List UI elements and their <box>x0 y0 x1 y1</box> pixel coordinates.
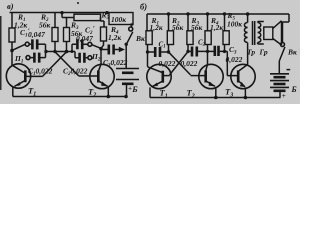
wire top rail left <box>10 12 110 14</box>
capacitor C1 right <box>148 51 155 53</box>
transistor T1 right <box>147 64 171 88</box>
wire bottom rail left <box>13 96 127 98</box>
svg-text:1,2к: 1,2к <box>150 23 163 32</box>
transformer Тр secondary <box>258 23 261 43</box>
svg-text:Тр: Тр <box>247 48 255 57</box>
svg-text:Гр: Гр <box>259 48 268 57</box>
junction dot R3 node <box>65 50 69 54</box>
capacitor C2' <box>83 43 87 45</box>
battery Б right <box>270 73 289 75</box>
wire R1 top stub <box>11 13 13 29</box>
minus tick <box>287 69 291 71</box>
switch Вк contact <box>129 27 133 31</box>
wire top rail right <box>147 13 289 15</box>
switch Вк right contact <box>281 43 285 47</box>
switch П2 lower contact <box>88 56 92 60</box>
scan edge artifact <box>0 16 2 90</box>
battery Б left <box>116 68 139 70</box>
svg-text:Вк: Вк <box>135 34 145 43</box>
transistor T2 right <box>199 64 223 88</box>
wire blade to battery <box>278 61 280 74</box>
wire R1 bottom stub <box>11 42 13 51</box>
svg-text:С3: С3 <box>229 45 237 56</box>
switch Вк blade <box>126 32 133 45</box>
node T1 collector dot <box>10 49 14 53</box>
resistor R2 right <box>168 14 170 31</box>
wire R3 top stub <box>66 18 68 28</box>
node T2 collector dot <box>99 47 103 51</box>
node dot rail at x107 <box>105 11 108 14</box>
wire C1' to node P <box>45 44 47 51</box>
svg-text:Вк: Вк <box>287 48 297 57</box>
wire R4 bottom stub <box>101 41 104 64</box>
wire T3 base drop <box>227 51 238 75</box>
wire R2 top stub <box>54 13 56 28</box>
svg-text:П1: П1 <box>14 54 23 65</box>
wire feedback y17 <box>62 13 74 18</box>
svg-text:0,022: 0,022 <box>181 59 198 68</box>
junction dot R2 node <box>53 50 56 53</box>
wire T2 base lead <box>79 75 97 77</box>
capacitor C3 right <box>208 50 214 52</box>
wire T1 base lead right <box>164 75 170 77</box>
switch П1 lower contact <box>26 56 30 60</box>
wire T2 base lead right <box>191 75 205 77</box>
stray dot top <box>77 2 79 4</box>
svg-text:0,022: 0,022 <box>226 55 243 64</box>
switch Вк right blade <box>279 47 285 61</box>
wire R5 to R4 <box>101 18 105 28</box>
wire X right D1 <box>169 52 191 75</box>
resistor R3 <box>64 28 70 42</box>
transistor T2 <box>90 64 114 88</box>
wire T1 base lead <box>26 75 42 77</box>
wire box to switch <box>131 25 133 27</box>
junction dot C2' node <box>71 50 74 53</box>
wire node bus y51.5 <box>46 51 76 53</box>
svg-text:56к: 56к <box>39 21 51 30</box>
resistor R1 right <box>146 14 148 31</box>
capacitor C2 right <box>188 50 191 52</box>
resistor R1 <box>9 28 15 42</box>
svg-text:0,047: 0,047 <box>76 34 93 43</box>
svg-text:Б: Б <box>131 84 138 94</box>
wire R3 bottom stub <box>66 42 68 52</box>
transistor T1 <box>6 64 30 88</box>
svg-text:С1: С1 <box>159 41 166 50</box>
resistor R2 <box>52 28 58 42</box>
capacitor C3 <box>101 49 108 51</box>
resistor R3 right <box>187 14 189 31</box>
svg-text:Т1: Т1 <box>28 86 36 98</box>
switch П1 blade <box>13 44 26 50</box>
node dot rail at x62 <box>60 11 63 14</box>
svg-text:С30,022: С30,022 <box>103 58 128 69</box>
arrow output <box>119 47 125 52</box>
svg-text:Т3: Т3 <box>225 87 233 99</box>
node dot blade bottom <box>125 43 128 46</box>
switch П2 upper contact <box>88 42 92 46</box>
switch П2 blade <box>92 45 101 49</box>
svg-text:в): в) <box>7 1 14 11</box>
node dot T1 collector right <box>146 50 149 53</box>
svg-text:б): б) <box>140 2 147 12</box>
wire bottom rail right <box>150 97 281 99</box>
resistor R4 right <box>207 14 209 31</box>
wire C1 to node P <box>45 52 47 58</box>
svg-text:56к: 56к <box>172 23 184 32</box>
wire X D1 <box>55 52 79 76</box>
wire X D2 <box>43 52 67 77</box>
resistor R5 right <box>224 14 226 31</box>
svg-text:Б: Б <box>291 85 297 94</box>
resistor R5 box 100k <box>109 13 133 25</box>
wire R2 bottom stub <box>54 42 56 52</box>
wire X right D2 <box>170 52 189 76</box>
svg-text:1,2к: 1,2к <box>108 33 121 42</box>
svg-text:+: + <box>282 92 286 100</box>
svg-text:0,047: 0,047 <box>28 30 45 39</box>
svg-text:100к: 100к <box>111 15 126 24</box>
svg-text:56к: 56к <box>191 23 203 32</box>
resistor R5 horizontal <box>74 14 101 20</box>
junction dot box corner <box>130 23 133 26</box>
capacitor C1 <box>30 57 33 59</box>
capacitor C2 <box>86 57 88 59</box>
capacitor C1' <box>29 43 31 45</box>
svg-text:С10,022: С10,022 <box>28 67 53 78</box>
wire T1 collector drop <box>11 51 13 66</box>
speaker Гр <box>264 27 273 40</box>
transformer Тр primary <box>247 14 249 23</box>
transformer core <box>253 21 255 45</box>
switch П1 upper contact <box>25 42 29 46</box>
svg-text:1,2к: 1,2к <box>210 23 223 32</box>
junction dot C1 node <box>44 50 47 53</box>
wire to battery <box>125 44 127 68</box>
svg-text:100к: 100к <box>227 20 242 29</box>
transistor T3 right <box>231 64 255 88</box>
wire rail right end down <box>283 14 290 42</box>
resistor R4 <box>101 27 107 41</box>
